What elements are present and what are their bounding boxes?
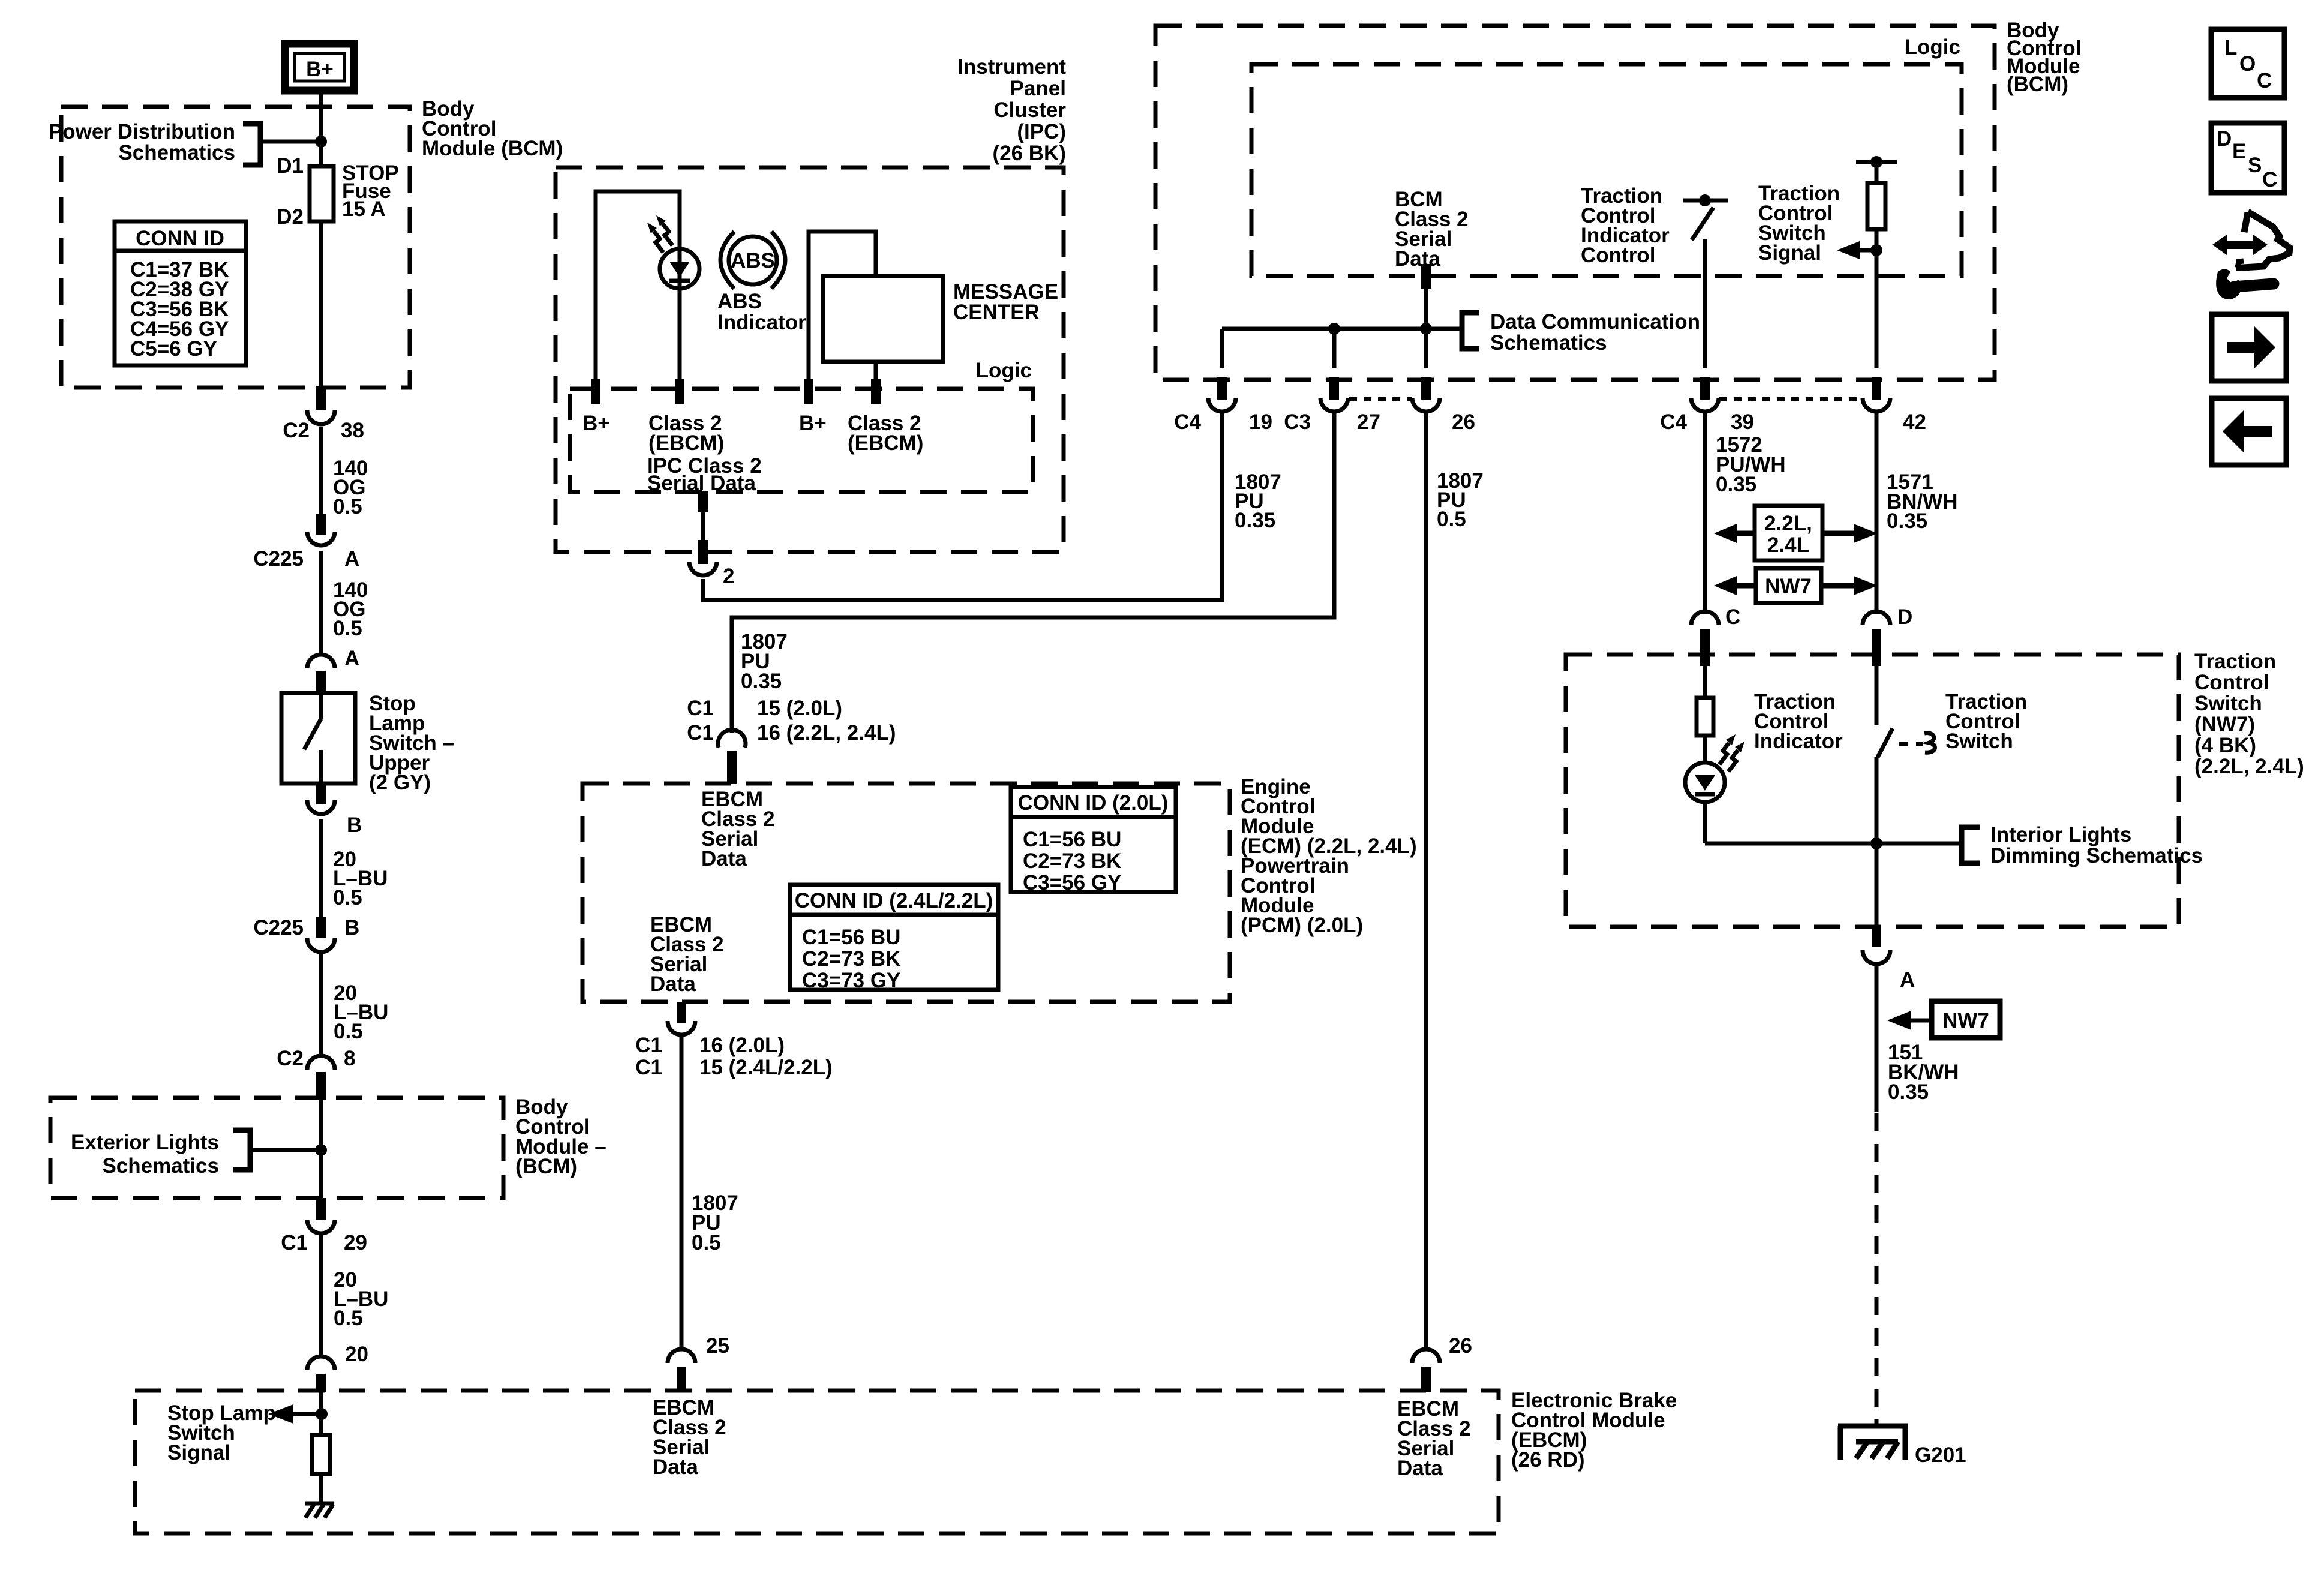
svg-text:C1: C1 [687,721,714,745]
power symbol B+ [285,44,354,91]
svg-text:27: 27 [1357,410,1380,434]
svg-text:C5=6 GY: C5=6 GY [130,337,217,361]
wire bus to C3 pin [1332,329,1337,368]
label 1807 PU 0.5 mid [692,1191,738,1254]
resistor traction switch signal pullup [1856,156,1897,229]
label 20 L-BU 0.5 [334,1268,388,1330]
svg-text:A: A [1900,968,1915,992]
label BCM Class 2 Serial Data [1395,188,1469,271]
svg-text:Schematics: Schematics [1490,331,1607,355]
svg-text:C: C [1725,605,1740,629]
icon LOC box [2211,29,2284,98]
svg-text:D: D [1897,605,1912,629]
module box BCM1 dashed border [61,107,410,388]
ground internal EBCM [305,1503,334,1518]
connector pin 2 [689,540,734,588]
svg-text:26: 26 [1449,1334,1472,1358]
wire internal bus horizontal [1222,329,1462,368]
svg-text:Data Communication: Data Communication [1490,310,1700,334]
svg-text:8: 8 [344,1047,355,1070]
connector C3 pin 27 [1284,377,1380,434]
pin stub B+ right [804,379,813,404]
wire 1807 PU 0.5 down to EBCM 26 [1424,412,1428,1350]
svg-text:C2=73 BK: C2=73 BK [802,947,900,971]
label Class 2 (EBCM) right [848,412,923,455]
svg-text:NW7: NW7 [1765,575,1812,598]
svg-text:26: 26 [1452,410,1475,434]
svg-text:0.35: 0.35 [1235,509,1275,532]
label MESSAGE CENTER [953,280,1058,324]
svg-text:B: B [344,916,359,939]
svg-text:L: L [2224,36,2237,59]
svg-text:C3=73 GY: C3=73 GY [802,969,900,992]
svg-text:Data: Data [653,1455,698,1479]
connector C4 pin 19 [1174,377,1272,434]
connector C1 pin 29 [281,1198,367,1254]
svg-text:15 (2.0L): 15 (2.0L) [757,697,842,720]
svg-text:C4: C4 [1174,410,1201,434]
icon DESC box [2211,123,2284,193]
connector pin A out of switch box [1863,926,1915,992]
wire 140 OG 0.5 upper [319,427,323,516]
svg-text:(PCM) (2.0L): (PCM) (2.0L) [1241,914,1363,937]
callout box 2.2L 2.4L [1755,506,1822,560]
label Body Control Module (BCM) [422,97,563,160]
wire indicator to interior lights junction [1705,842,1960,846]
svg-text:(EBCM): (EBCM) [648,431,724,455]
svg-text:15 (2.4L/2.2L): 15 (2.4L/2.2L) [699,1056,833,1079]
svg-text:A: A [344,547,359,571]
tab Interior Lights Dimming Schematics [1962,823,2203,867]
wire B+ to fuse [319,91,323,168]
connector pin C into switch box [1691,611,1719,666]
svg-text:C2=73 BK: C2=73 BK [1023,849,1121,873]
svg-text:C225: C225 [253,916,304,939]
svg-text:Switch: Switch [1945,730,2013,753]
svg-text:A: A [344,647,359,670]
ground G201 [1838,1426,1966,1467]
svg-text:39: 39 [1731,410,1754,434]
switch traction control indicator control driver [1683,194,1728,240]
svg-text:B+: B+ [306,58,334,81]
wire resistor to ground [319,1474,323,1503]
svg-text:Signal: Signal [167,1441,230,1464]
svg-text:Interior Lights: Interior Lights [1990,823,2131,846]
svg-text:0.35: 0.35 [1716,473,1756,496]
wire 140 OG 0.5 lower [319,551,323,654]
wire pin 2 to C4 19 [703,413,1222,600]
svg-text:Power Distribution: Power Distribution [49,120,235,143]
svg-text:NW7: NW7 [1942,1009,1989,1032]
wire ABS led to logic [678,289,682,380]
svg-text:(NW7): (NW7) [2194,713,2255,736]
svg-text:D1: D1 [277,154,304,178]
wire 20 L-BU 0.5 upper [319,819,323,919]
connector pin 42 [1863,377,1926,434]
connector pin 20 into EBCM [307,1356,335,1392]
icon arrow next [2212,314,2286,381]
svg-text:29: 29 [344,1231,367,1254]
svg-text:Schematics: Schematics [118,141,235,164]
tab Data Communication Schematics [1462,310,1700,355]
light rays traction indicator [1719,734,1744,772]
wire BCM serial data down [1424,289,1428,368]
pin stub BCM serial data [1421,264,1431,289]
fuse STOP 15A [310,166,334,221]
svg-text:Control: Control [2194,671,2269,694]
wire serial data between borders [701,512,705,541]
svg-text:0.5: 0.5 [333,617,362,640]
svg-text:20: 20 [345,1343,368,1366]
connector C4 pin 39 [1660,377,1754,434]
label 140 OG 0.5 [333,578,368,640]
label 1572 PU/WH 0.35 [1716,433,1786,496]
label ABS Indicator [717,290,806,334]
node junction interior lights [1870,837,1882,849]
arrow left NW7 [1714,576,1756,595]
svg-text:25: 25 [706,1334,729,1358]
tab Exterior Lights Schematics [71,1130,321,1178]
connector pin 26 [1412,377,1475,434]
connector C2 pin 38 [283,386,364,442]
svg-text:42: 42 [1903,410,1926,434]
arrow right NW7 [1821,576,1878,595]
wire indicator control down [1703,239,1707,368]
connector into ECM top [718,730,746,784]
label Electronic Brake Control Module (EBCM) (26 RD) [1511,1389,1677,1472]
table CONN ID (2.0L) [1011,787,1176,894]
switch traction control momentary [1876,666,1935,843]
svg-text:0.35: 0.35 [741,670,782,693]
svg-text:2.4L: 2.4L [1767,533,1809,557]
svg-text:Control: Control [1581,244,1655,267]
label C1 15 2.0L [687,697,842,720]
message center box [823,276,943,362]
label C1 15 2.4L/2.2L [635,1056,833,1079]
arrow left 2.2L [1714,524,1755,543]
svg-text:C1: C1 [281,1231,308,1254]
wire dashed to ground [1875,1113,1879,1426]
label 1807 PU 0.5 right [1437,469,1484,531]
table CONN ID (2.4L/2.2L) [790,885,998,992]
node junction bus at C3 [1328,323,1340,335]
svg-text:G201: G201 [1915,1443,1966,1467]
svg-text:CONN ID (2.4L/2.2L): CONN ID (2.4L/2.2L) [795,889,993,912]
svg-text:0.5: 0.5 [334,1307,363,1330]
svg-text:C1=56 BU: C1=56 BU [802,926,900,949]
svg-text:D: D [2217,127,2232,151]
svg-text:C3=56 GY: C3=56 GY [1023,871,1121,894]
svg-text:B+: B+ [799,412,827,435]
svg-text:16 (2.2L, 2.4L): 16 (2.2L, 2.4L) [757,721,896,745]
connector out of ECM bottom [668,1002,695,1035]
wire C3 27 to ECM [732,413,1334,733]
wire junction down to pin A [1875,843,1879,927]
svg-text:Schematics: Schematics [102,1154,219,1178]
node junction serial data [1420,323,1432,335]
svg-text:Data: Data [650,972,696,996]
wire through BCM exterior box [319,1100,323,1198]
label 1807 PU 0.35 mid [741,630,788,693]
svg-text:2: 2 [723,565,734,588]
svg-text:(IPC): (IPC) [1017,120,1066,143]
icon arrow back [2212,398,2286,465]
svg-text:C1=56 BU: C1=56 BU [1023,828,1121,851]
svg-text:Indicator: Indicator [1754,730,1843,753]
stop lamp switch box [281,693,355,784]
svg-text:16 (2.0L): 16 (2.0L) [699,1034,785,1057]
label 20 L-BU 0.5 [334,981,388,1043]
svg-text:19: 19 [1249,410,1272,434]
svg-text:E: E [2232,140,2246,163]
svg-text:(2.2L, 2.4L): (2.2L, 2.4L) [2194,755,2304,778]
svg-text:(BCM): (BCM) [2007,73,2068,96]
label IPC Class 2 Serial Data [647,454,762,495]
label EBCM Class 2 Serial Data pin25 [653,1396,726,1479]
wire 1571 BN/WH 0.35 [1875,412,1879,614]
connector C225 pin A [253,514,359,571]
connector pin 25 into EBCM [668,1349,695,1392]
label Body Control Module - (BCM) [515,1095,606,1178]
pin stub class2 right [871,379,881,404]
svg-text:C3: C3 [1284,410,1311,434]
svg-text:Logic: Logic [976,359,1032,382]
svg-text:0.5: 0.5 [1437,508,1466,531]
svg-text:(BCM): (BCM) [515,1155,577,1178]
svg-text:0.5: 0.5 [333,886,362,909]
callout box NW7 [1756,568,1821,603]
svg-text:Indicator: Indicator [717,311,806,334]
svg-text:CONN ID (2.0L): CONN ID (2.0L) [1018,791,1169,815]
pin stub B+ left [591,379,600,404]
svg-text:(26 BK): (26 BK) [992,142,1066,165]
svg-text:B+: B+ [582,412,610,435]
module box EBCM dashed border [135,1391,1499,1533]
label Stop Lamp Switch Signal [167,1401,276,1464]
svg-text:C: C [2257,69,2272,92]
pin stub IPC serial data inner [698,491,708,512]
svg-text:ABS: ABS [731,249,775,272]
resistor traction indicator [1697,666,1713,736]
label Traction Control Indicator [1754,690,1843,753]
label EBCM Class 2 Serial Data upper [701,788,775,870]
label Instrument Panel Cluster (IPC) (26 BK) [957,55,1066,165]
light rays ABS indicator [647,215,672,253]
arrow right 2.2L [1822,524,1878,543]
dotted connector link 39-42 [1719,397,1862,401]
svg-text:D2: D2 [277,205,304,229]
svg-text:Module (BCM): Module (BCM) [422,137,563,160]
svg-text:S: S [2248,154,2262,177]
module box traction control switch dashed border [1566,655,2179,927]
label Class 2 (EBCM) left [648,412,724,455]
label 1571 BN/WH 0.35 [1887,470,1958,533]
label Traction Control Switch [1945,690,2027,753]
label C1 16 2.2L 2.4L [687,721,896,745]
svg-text:C: C [2262,168,2277,191]
label C1 16 2.0L [635,1034,785,1057]
wire B+ feed to message center [809,232,876,380]
label Traction Control Indicator Control [1581,184,1670,267]
connector pin B below switch [307,784,362,837]
wire 20 L-BU 0.5 mid [319,954,323,1056]
svg-text:C1: C1 [635,1056,662,1079]
node junction exterior lights [315,1144,327,1156]
node junction on B+ wire [315,136,327,148]
svg-text:Signal: Signal [1758,241,1821,265]
svg-text:Switch: Switch [2194,692,2262,715]
logic box BCM2 dashed border [1251,64,1962,276]
connector C225 pin B [253,916,359,952]
connector C2 pin 8 [277,1047,355,1100]
icon vehicle repair [2212,212,2290,299]
svg-text:Cluster: Cluster [993,98,1066,122]
svg-text:0.5: 0.5 [334,1020,363,1043]
svg-text:Exterior Lights: Exterior Lights [71,1131,219,1154]
label Engine Control Module ECM PCM [1241,775,1417,937]
tab Power Distribution Schematics [49,120,321,165]
svg-text:(4 BK): (4 BK) [2194,734,2256,757]
svg-text:Data: Data [1397,1457,1443,1480]
svg-text:(26 RD): (26 RD) [1511,1448,1585,1472]
svg-text:CONN ID: CONN ID [136,227,224,250]
svg-text:0.35: 0.35 [1888,1080,1929,1104]
svg-text:0.5: 0.5 [692,1231,721,1254]
svg-text:Data: Data [701,847,747,870]
connector entering stop lamp switch [307,655,335,695]
label 20 L-BU 0.5 [333,848,388,909]
wire B+ feed to ABS indicator [596,191,680,380]
led ABS indicator lamp [660,249,699,289]
switch contacts stop lamp [304,693,321,784]
arrow switch signal to logic [1837,241,1882,259]
symbol ABS telltale [720,232,785,289]
module box ECM dashed border [582,784,1230,1002]
wire 151 BK/WH solid part [1875,965,1879,1112]
label Traction Control Switch (NW7) (4 BK) (2.2L, 2.4L) [2194,650,2304,778]
svg-text:C225: C225 [253,547,304,571]
wire 20 L-BU 0.5 lower [319,1235,323,1358]
led traction control indicator [1685,736,1725,843]
arrow stop lamp switch signal [268,1404,328,1424]
label EBCM Class 2 Serial Data lower [650,913,724,996]
svg-text:Traction: Traction [2194,650,2276,673]
module box IPC dashed border [556,167,1064,552]
wire 1807 PU 0.35 to junction [1235,470,1281,532]
svg-text:Data: Data [1395,247,1440,271]
svg-text:C2: C2 [277,1047,304,1070]
svg-text:Instrument: Instrument [957,55,1066,79]
svg-text:Panel: Panel [1010,77,1066,100]
svg-text:Dimming Schematics: Dimming Schematics [1990,844,2203,867]
svg-text:2.2L,: 2.2L, [1764,512,1812,535]
label Stop Lamp Switch Upper (2 GY) [369,692,454,794]
wire switch signal down [1875,229,1879,368]
label 151 BK/WH 0.35 [1888,1041,1959,1104]
table CONN ID [115,221,246,365]
wire message center to logic [874,362,878,380]
wire 1807 PU 0.5 to EBCM pin 25 [680,1037,684,1350]
svg-text:15 A: 15 A [342,197,386,221]
svg-text:0.35: 0.35 [1887,509,1927,533]
label Traction Control Switch Signal [1758,182,1840,265]
svg-text:Logic: Logic [1905,35,1960,59]
resistor stop lamp pulldown [312,1435,330,1474]
svg-text:(EBCM): (EBCM) [848,431,923,455]
svg-text:C1: C1 [635,1034,662,1057]
pin stub class2 left [675,379,684,404]
module box BCM exterior lights dashed border [50,1098,503,1198]
connector pin D into switch box [1863,611,1890,666]
svg-text:ABS: ABS [717,290,762,313]
svg-text:CENTER: CENTER [953,301,1040,324]
label Body Control Module (BCM) right [2007,19,2081,96]
wire stop lamp input inside EBCM [319,1391,323,1435]
svg-text:0.5: 0.5 [333,495,362,518]
svg-text:C4: C4 [1660,410,1687,434]
wire 1572 PU/WH 0.35 [1703,412,1707,614]
callout box NW7 reference [1887,1001,2000,1038]
label EBCM Class 2 Serial Data pin26 [1397,1397,1471,1480]
logic box IPC dashed border [570,389,1033,492]
connector pin 26 into EBCM [1412,1349,1440,1392]
svg-text:C1: C1 [687,697,714,720]
label STOP Fuse 15 A [342,161,399,221]
svg-text:(2 GY): (2 GY) [369,771,431,794]
wire fuse to BCM1 bottom [319,221,323,388]
svg-text:O: O [2239,52,2256,76]
label 140 OG 0.5 [333,457,368,518]
dotted connector link C3-26 [1349,397,1412,401]
svg-text:B: B [347,813,362,837]
module box BCM2 dashed border [1155,26,1995,380]
svg-text:C2: C2 [283,419,310,442]
svg-text:38: 38 [341,419,364,442]
